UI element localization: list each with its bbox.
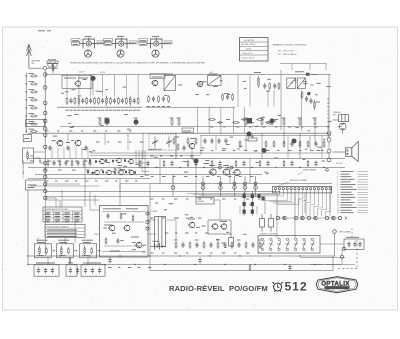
resistor [265,140,267,148]
transistor (dark case) [134,120,139,125]
dark component [307,92,310,95]
contact cross [345,217,347,220]
resistor [69,257,71,264]
capacitor [210,138,213,144]
value label [250,176,253,178]
legend line [341,181,351,183]
value label [165,73,173,75]
table cell [64,219,70,221]
capacitor [198,257,201,263]
value label [185,214,189,216]
label leader [277,182,289,186]
contact [146,212,149,215]
value label [316,82,320,84]
value label [206,94,209,96]
legend line2 [358,196,369,198]
resistor [278,82,280,90]
value label [190,157,194,159]
legend line2 [358,199,369,201]
value label [28,187,35,189]
left bus A [25,73,27,133]
capacitor [52,160,55,166]
value label [129,141,131,143]
node [219,182,222,185]
resistor [66,97,68,105]
coil cadre [27,150,29,160]
value label [143,244,146,246]
wire [34,151,46,153]
coil box L8 [56,244,73,258]
strip fanout wire [302,193,304,199]
value label [83,262,101,264]
value label [220,80,223,82]
contact cross [301,217,303,220]
pin 7 [298,188,300,190]
resistor [158,95,160,103]
wire [214,200,220,220]
value label [150,198,153,200]
value label [83,242,91,244]
transistor T10 [115,158,121,163]
capacitor [98,268,101,274]
value label [258,198,260,200]
junction [26,107,27,108]
wire [67,133,69,143]
value label [305,148,308,150]
transistor T9 [98,159,104,164]
value label [258,239,262,241]
value label [85,35,92,37]
table line [45,230,85,232]
rail y191 [45,191,280,193]
electrolytic capacitor [260,214,265,232]
value label [68,262,73,264]
node [244,182,247,185]
pin label [97,41,105,44]
value label [233,150,235,152]
svg-text:512: 512 [285,280,308,294]
table cell [55,219,61,221]
wire [51,148,53,159]
legend line [341,173,350,175]
strip fanout wire [199,195,283,197]
wire [87,257,89,265]
strip fanout wire [310,193,312,203]
wire [30,185,100,187]
value label [113,109,116,111]
value label [123,86,127,88]
value label [277,150,279,152]
value label [114,169,118,171]
legend line2 [358,209,369,211]
resistor [222,93,224,101]
value label [303,81,307,83]
node antenna [43,66,47,70]
value label [234,252,236,254]
strip fanout wire [314,205,319,207]
value label [200,150,203,152]
svg-text:T. ALIM: T. ALIM [151,210,157,213]
value label [174,198,177,200]
dark electrode [125,171,127,173]
value label [121,109,124,111]
value label [288,126,291,128]
switch S5 [294,238,298,251]
capacitor [309,98,312,104]
wire [69,148,71,159]
legend line [341,199,351,201]
value label [58,169,62,171]
wire [191,149,193,159]
value label [315,94,318,96]
wire [196,107,198,133]
value label [84,160,87,162]
value label [317,149,321,151]
strip fanout wire [301,201,303,216]
connector strip [273,186,332,193]
capacitor [81,98,84,104]
value label [101,124,104,126]
value label [236,126,239,128]
switch S1 [260,238,264,251]
value label [250,122,254,124]
value label [65,180,68,182]
value label [105,44,111,46]
table cell [64,212,70,214]
strip fanout wire [318,207,323,209]
IF can FI1 [164,76,175,91]
switch contact [325,216,328,219]
FM ground rail [57,106,142,108]
pin label [104,42,112,45]
strip fanout wire [309,204,311,215]
pin label [130,41,138,44]
clock icon [273,282,283,292]
wire [94,195,96,206]
value label [249,204,253,206]
value label [65,91,69,93]
value label [128,169,132,171]
value label [29,113,35,115]
value label [29,97,35,99]
resistor [94,97,96,105]
value label [151,176,153,178]
wire [320,243,344,245]
junction [27,264,28,265]
value label [226,119,230,121]
wire [47,67,58,69]
table line [62,211,64,222]
bus node [43,145,47,149]
capacitor [347,241,350,247]
value label [85,180,88,182]
IF can FI2 [208,76,222,86]
value label [135,180,137,182]
table cell [55,215,61,217]
wire [333,151,346,153]
legend line [341,191,352,193]
strip fanout wire [298,193,300,204]
switch position table [43,207,82,222]
value label [36,239,47,241]
junction [251,167,252,168]
connector [327,131,331,135]
dark component [306,73,310,76]
value label [227,93,231,95]
legend line [341,186,353,188]
legend line2 [358,186,369,188]
dark component [258,194,261,198]
junction [26,123,27,124]
resistor [132,214,134,221]
value label [346,236,359,238]
output transformer [339,115,349,122]
value label [184,171,188,173]
junction [164,264,165,265]
junction [324,139,325,140]
svg-text:14,5V: 14,5V [100,72,106,74]
transistor (dark case) [270,119,275,124]
resistor [117,97,119,105]
value label [82,148,86,150]
value label [314,126,317,128]
capacitor [314,141,317,147]
coil box L7 [34,244,51,258]
switch S6 [302,238,306,251]
capacitor [353,241,356,247]
junction [209,255,210,256]
value label [64,77,76,79]
legend line2 [358,194,369,196]
transistor T2 (dark) [90,76,95,81]
value label [327,126,329,128]
svg-text:PRISE CADRAN: PRISE CADRAN [303,169,316,172]
capacitor [44,268,47,274]
resistor [256,119,264,121]
pin 11 [313,188,315,190]
value label [44,169,48,171]
junction [26,99,27,100]
resistor [86,97,88,105]
spec box divider [240,45,269,47]
value label [266,173,269,175]
value label [31,155,34,157]
legend line2 [358,204,369,206]
value label [262,148,265,150]
diode D1 [243,192,246,200]
value label [85,109,88,111]
capacitor [121,98,124,104]
wire [78,75,80,97]
wire [239,206,241,214]
strip fanout wire [314,193,316,205]
strip fanout wire [273,202,295,204]
value label [61,92,64,94]
value label [178,84,182,86]
wire [301,90,303,131]
wire [75,148,77,159]
wire [149,184,151,271]
coil [60,246,62,256]
resistor [307,160,309,167]
electrolytic capacitor [269,214,274,232]
resistor [245,118,247,126]
value label [186,252,188,254]
legend line [341,184,356,186]
svg-text:AC 110 à 220 V: AC 110 à 220 V [242,43,257,46]
capacitor [37,268,40,274]
small box [23,135,31,142]
capacitor [170,161,173,167]
value label [81,109,84,111]
resistor [232,122,240,124]
value label [103,208,121,210]
wire [148,233,156,235]
wire [255,176,257,197]
wire [229,168,231,184]
value label [140,40,147,42]
contact cross [283,217,285,220]
pin lead [302,190,304,193]
wire [159,159,161,184]
value label [266,90,270,92]
value label [222,150,225,152]
resistor [195,137,197,145]
value label [246,252,249,254]
wire [220,176,222,197]
pin 10 [310,188,312,190]
wire [45,183,80,185]
capacitor [106,213,109,219]
arrow [74,250,77,252]
value label [82,255,89,257]
resistor [173,137,175,145]
legend line [341,196,356,198]
value label [176,217,179,219]
value label [328,120,332,122]
junction [26,91,27,92]
dark electrode [124,159,126,161]
coil can GO [297,78,305,89]
value label [74,113,78,115]
resistor [249,264,251,271]
value label [244,117,248,119]
table cell [55,217,59,219]
value label [129,130,131,132]
pin lead [329,190,331,193]
svg-text:RADIO-RÉVEIL PO/GO/FM: RADIO-RÉVEIL PO/GO/FM [169,284,268,293]
transistor T17 [211,224,218,230]
resistor [163,160,165,167]
value label [256,161,259,163]
strip fanout wire [193,194,279,196]
value label [123,165,127,167]
resistor [307,140,309,148]
value label [316,101,320,103]
bus node [43,73,47,77]
capacitor [195,242,198,248]
wire [74,222,76,244]
value label [115,180,117,182]
value label [255,125,259,127]
transistor driver 1 [209,169,217,175]
value label [93,130,96,132]
value label [154,156,158,158]
value label [109,109,112,111]
wire [175,133,177,158]
wire [304,193,306,213]
value label [118,267,120,269]
strip fanout wire [310,203,315,205]
value label [98,42,104,44]
capacitor [51,268,54,274]
wire [249,75,251,108]
value label [177,117,181,119]
value label [72,40,79,42]
capacitor [237,242,240,248]
value label [311,74,317,76]
resistor [239,140,241,148]
capacitor [266,161,269,167]
dark electrode [112,160,114,162]
node [201,186,205,190]
value label [127,128,131,130]
wire [280,70,282,130]
right bus [328,75,330,132]
strip fanout wire [322,209,327,211]
resistor R107 [30,123,38,125]
value label [162,176,165,178]
capacitor [113,98,116,104]
T1 stage box [62,75,92,88]
svg-text:CLAVIER 3 TOUCHES: CLAVIER 3 TOUCHES [260,232,278,235]
wire [62,199,100,201]
value label [174,239,178,241]
value label [195,239,199,241]
diode D4 [251,192,254,200]
wire [102,211,145,213]
value label [119,167,122,169]
strip fanout wire [286,193,288,201]
node [243,186,247,190]
wire [200,136,202,155]
junction [284,264,285,265]
wire [172,176,174,197]
legend line [341,189,357,191]
value label [198,252,201,254]
capacitor [288,265,291,271]
value label [275,126,277,128]
frame line [325,63,327,70]
junction [269,255,270,256]
value label [234,198,236,200]
value label [140,176,143,178]
wire [57,148,59,159]
svg-text:17: 17 [337,212,339,214]
value label [185,232,188,234]
wire [61,190,63,207]
strip fanout wire [298,198,303,200]
node [254,186,258,190]
bottom component box [66,265,77,276]
junction [26,131,27,132]
wire [94,233,100,235]
strip fanout wire [297,199,299,216]
coil [78,96,80,106]
resistor [175,241,177,249]
value label [95,180,97,182]
coil L1 antenna [47,61,58,67]
